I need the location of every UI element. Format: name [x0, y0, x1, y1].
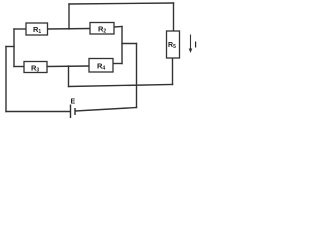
wire R3 left lead: [14, 66, 24, 68]
resistor R3: [24, 62, 47, 74]
resistor R5: [167, 31, 180, 58]
wire node B vertical (R2/R4 junction): [121, 27, 123, 64]
wire left inner vertical (node A): [13, 29, 15, 67]
current arrow I: [189, 35, 193, 54]
svg-text:I: I: [195, 41, 197, 50]
wire jog node B to bottom vertical: [122, 43, 137, 45]
wire outer left vertical: [5, 47, 7, 112]
wire midpoint R3R4 down: [68, 66, 70, 87]
resistor R4: [89, 59, 113, 73]
wire right vertical to R5 top: [173, 3, 175, 31]
wire R3 to R4: [47, 65, 89, 68]
svg-text:R5: R5: [168, 42, 176, 50]
wire bridge bottom (R3R4 midpoint to R5): [69, 85, 173, 87]
wire R2 right lead: [114, 26, 122, 29]
wire R1 to R2: [48, 28, 91, 31]
resistor R2: [90, 23, 114, 35]
wire R1 left lead: [14, 28, 26, 30]
resistor R1: [26, 23, 48, 35]
wire R4 right lead: [113, 63, 122, 65]
wire right bottom vertical: [136, 44, 138, 108]
wire midpoint R1R2 up: [68, 4, 70, 29]
wire R5 bottom lead: [172, 58, 174, 85]
battery E: [71, 105, 76, 119]
wire top: [69, 3, 174, 4]
wire bottom right from battery: [76, 108, 137, 112]
wire jog to outer left: [6, 46, 14, 48]
svg-text:E: E: [71, 99, 76, 106]
wire bottom left to battery: [6, 111, 70, 113]
